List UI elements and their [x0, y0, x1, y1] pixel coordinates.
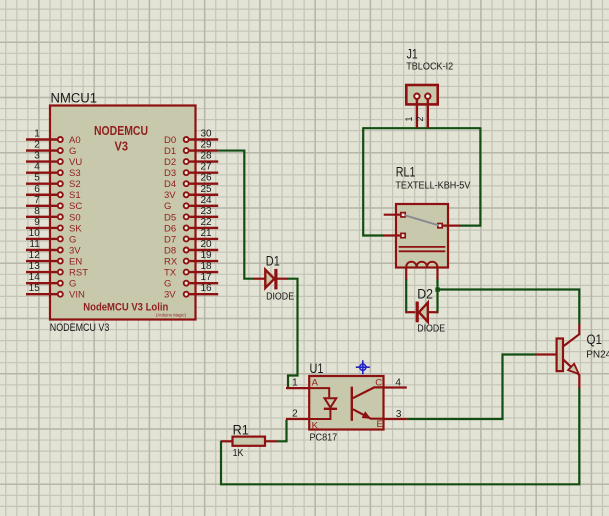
svg-text:14: 14 [29, 272, 41, 283]
svg-text:RX: RX [164, 256, 178, 267]
svg-text:V3: V3 [115, 139, 129, 154]
svg-text:C: C [375, 377, 382, 388]
svg-text:13: 13 [29, 261, 41, 272]
svg-text:17: 17 [201, 272, 213, 283]
svg-text:D7: D7 [164, 234, 176, 245]
svg-text:EN: EN [69, 256, 82, 267]
svg-text:3: 3 [396, 409, 402, 420]
svg-text:R1: R1 [233, 422, 249, 437]
svg-text:VIN: VIN [69, 290, 85, 301]
svg-text:S3: S3 [69, 168, 81, 179]
svg-text:G: G [69, 146, 76, 157]
svg-text:RL1: RL1 [396, 165, 416, 180]
svg-text:1: 1 [404, 116, 414, 121]
svg-text:D6: D6 [164, 223, 176, 234]
svg-text:3V: 3V [164, 190, 176, 201]
svg-text:4: 4 [395, 377, 401, 388]
svg-text:28: 28 [201, 151, 213, 162]
svg-text:7: 7 [34, 195, 40, 206]
svg-text:12: 12 [29, 250, 41, 261]
svg-text:D2: D2 [417, 287, 433, 302]
svg-text:TEXTELL-KBH-5V: TEXTELL-KBH-5V [395, 181, 470, 192]
svg-text:D5: D5 [164, 212, 176, 223]
svg-text:TBLOCK-I2: TBLOCK-I2 [406, 62, 453, 73]
svg-text:4: 4 [34, 162, 40, 173]
svg-text:PC817: PC817 [310, 433, 338, 444]
svg-text:25: 25 [201, 184, 213, 195]
svg-text:3V: 3V [69, 245, 81, 256]
svg-text:22: 22 [201, 217, 213, 228]
svg-text:(Arduino Magic): (Arduino Magic) [156, 313, 186, 318]
svg-text:27: 27 [201, 162, 213, 173]
svg-text:J1: J1 [407, 47, 418, 62]
svg-text:G: G [69, 234, 76, 245]
svg-text:1: 1 [292, 377, 298, 388]
svg-text:9: 9 [34, 217, 40, 228]
svg-text:D1: D1 [164, 146, 176, 157]
svg-text:8: 8 [34, 206, 40, 217]
svg-text:D3: D3 [164, 168, 176, 179]
svg-text:A0: A0 [69, 135, 81, 146]
svg-text:11: 11 [29, 239, 40, 250]
svg-text:D1: D1 [266, 254, 280, 269]
svg-text:G: G [164, 279, 171, 290]
svg-text:NodeMCU V3 Lolin: NodeMCU V3 Lolin [83, 301, 168, 313]
svg-text:10: 10 [29, 228, 41, 239]
svg-text:3V: 3V [164, 290, 176, 301]
svg-text:24: 24 [201, 195, 213, 206]
svg-text:2: 2 [292, 408, 298, 419]
svg-text:29: 29 [201, 140, 213, 151]
svg-text:18: 18 [201, 261, 213, 272]
svg-text:1K: 1K [233, 448, 244, 459]
svg-text:SK: SK [69, 223, 82, 234]
svg-text:PN2484: PN2484 [586, 349, 609, 360]
svg-text:D4: D4 [164, 179, 176, 190]
svg-text:TX: TX [164, 268, 177, 279]
svg-text:K: K [312, 421, 319, 432]
svg-text:Q1: Q1 [587, 332, 603, 347]
svg-text:DIODE: DIODE [266, 291, 294, 302]
svg-text:SC: SC [69, 201, 82, 212]
svg-text:DIODE: DIODE [417, 323, 445, 334]
svg-text:S2: S2 [69, 179, 81, 190]
svg-text:23: 23 [201, 206, 213, 217]
svg-text:G: G [69, 279, 76, 290]
svg-text:VU: VU [69, 157, 82, 168]
svg-text:E: E [377, 419, 383, 430]
svg-text:S1: S1 [69, 190, 81, 201]
svg-text:2: 2 [415, 116, 425, 121]
svg-text:30: 30 [201, 129, 213, 140]
svg-text:NMCU1: NMCU1 [51, 91, 98, 106]
svg-text:19: 19 [201, 250, 213, 261]
svg-text:RST: RST [69, 268, 88, 279]
svg-text:NODEMCU V3: NODEMCU V3 [50, 322, 110, 334]
svg-text:U1: U1 [310, 361, 324, 376]
svg-text:D0: D0 [164, 135, 176, 146]
svg-text:A: A [312, 377, 319, 388]
svg-text:2: 2 [34, 140, 40, 151]
svg-text:16: 16 [201, 283, 213, 294]
svg-text:5: 5 [34, 173, 40, 184]
svg-text:NODEMCU: NODEMCU [94, 123, 148, 138]
svg-text:3: 3 [34, 151, 40, 162]
svg-text:D2: D2 [164, 157, 176, 168]
svg-text:6: 6 [34, 184, 40, 195]
svg-text:20: 20 [201, 239, 213, 250]
svg-text:G: G [164, 201, 171, 212]
svg-text:S0: S0 [69, 212, 81, 223]
svg-text:26: 26 [201, 173, 213, 184]
svg-text:15: 15 [29, 283, 41, 294]
svg-text:D8: D8 [164, 245, 176, 256]
svg-text:1: 1 [34, 129, 40, 140]
svg-text:21: 21 [201, 228, 213, 239]
